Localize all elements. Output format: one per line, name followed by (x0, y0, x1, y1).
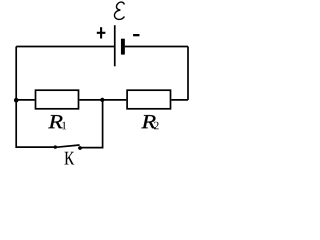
wire right rail (187, 47, 189, 100)
label K (64, 152, 74, 165)
resistor R1 (36, 90, 79, 109)
wire left rail + bottom left (16, 47, 55, 148)
label R2 (141, 115, 155, 128)
wire between R1 and R2 (79, 99, 126, 101)
label + (battery positive) (97, 27, 106, 38)
node left junction dot (14, 98, 19, 103)
wire top left segment (16, 46, 114, 48)
node mid junction dot (100, 98, 104, 102)
label R1 (48, 115, 62, 128)
wire top right segment (125, 46, 188, 48)
label - (battery negative) (133, 34, 139, 36)
wire R1 left lead (16, 99, 35, 101)
battery E1 (EMF source) (115, 25, 123, 66)
label EMF script E (114, 2, 124, 19)
wire R2 right lead (171, 99, 188, 101)
resistor R2 (127, 90, 170, 109)
wire drop to switch + bottom right (80, 100, 103, 148)
switch K (54, 145, 82, 150)
